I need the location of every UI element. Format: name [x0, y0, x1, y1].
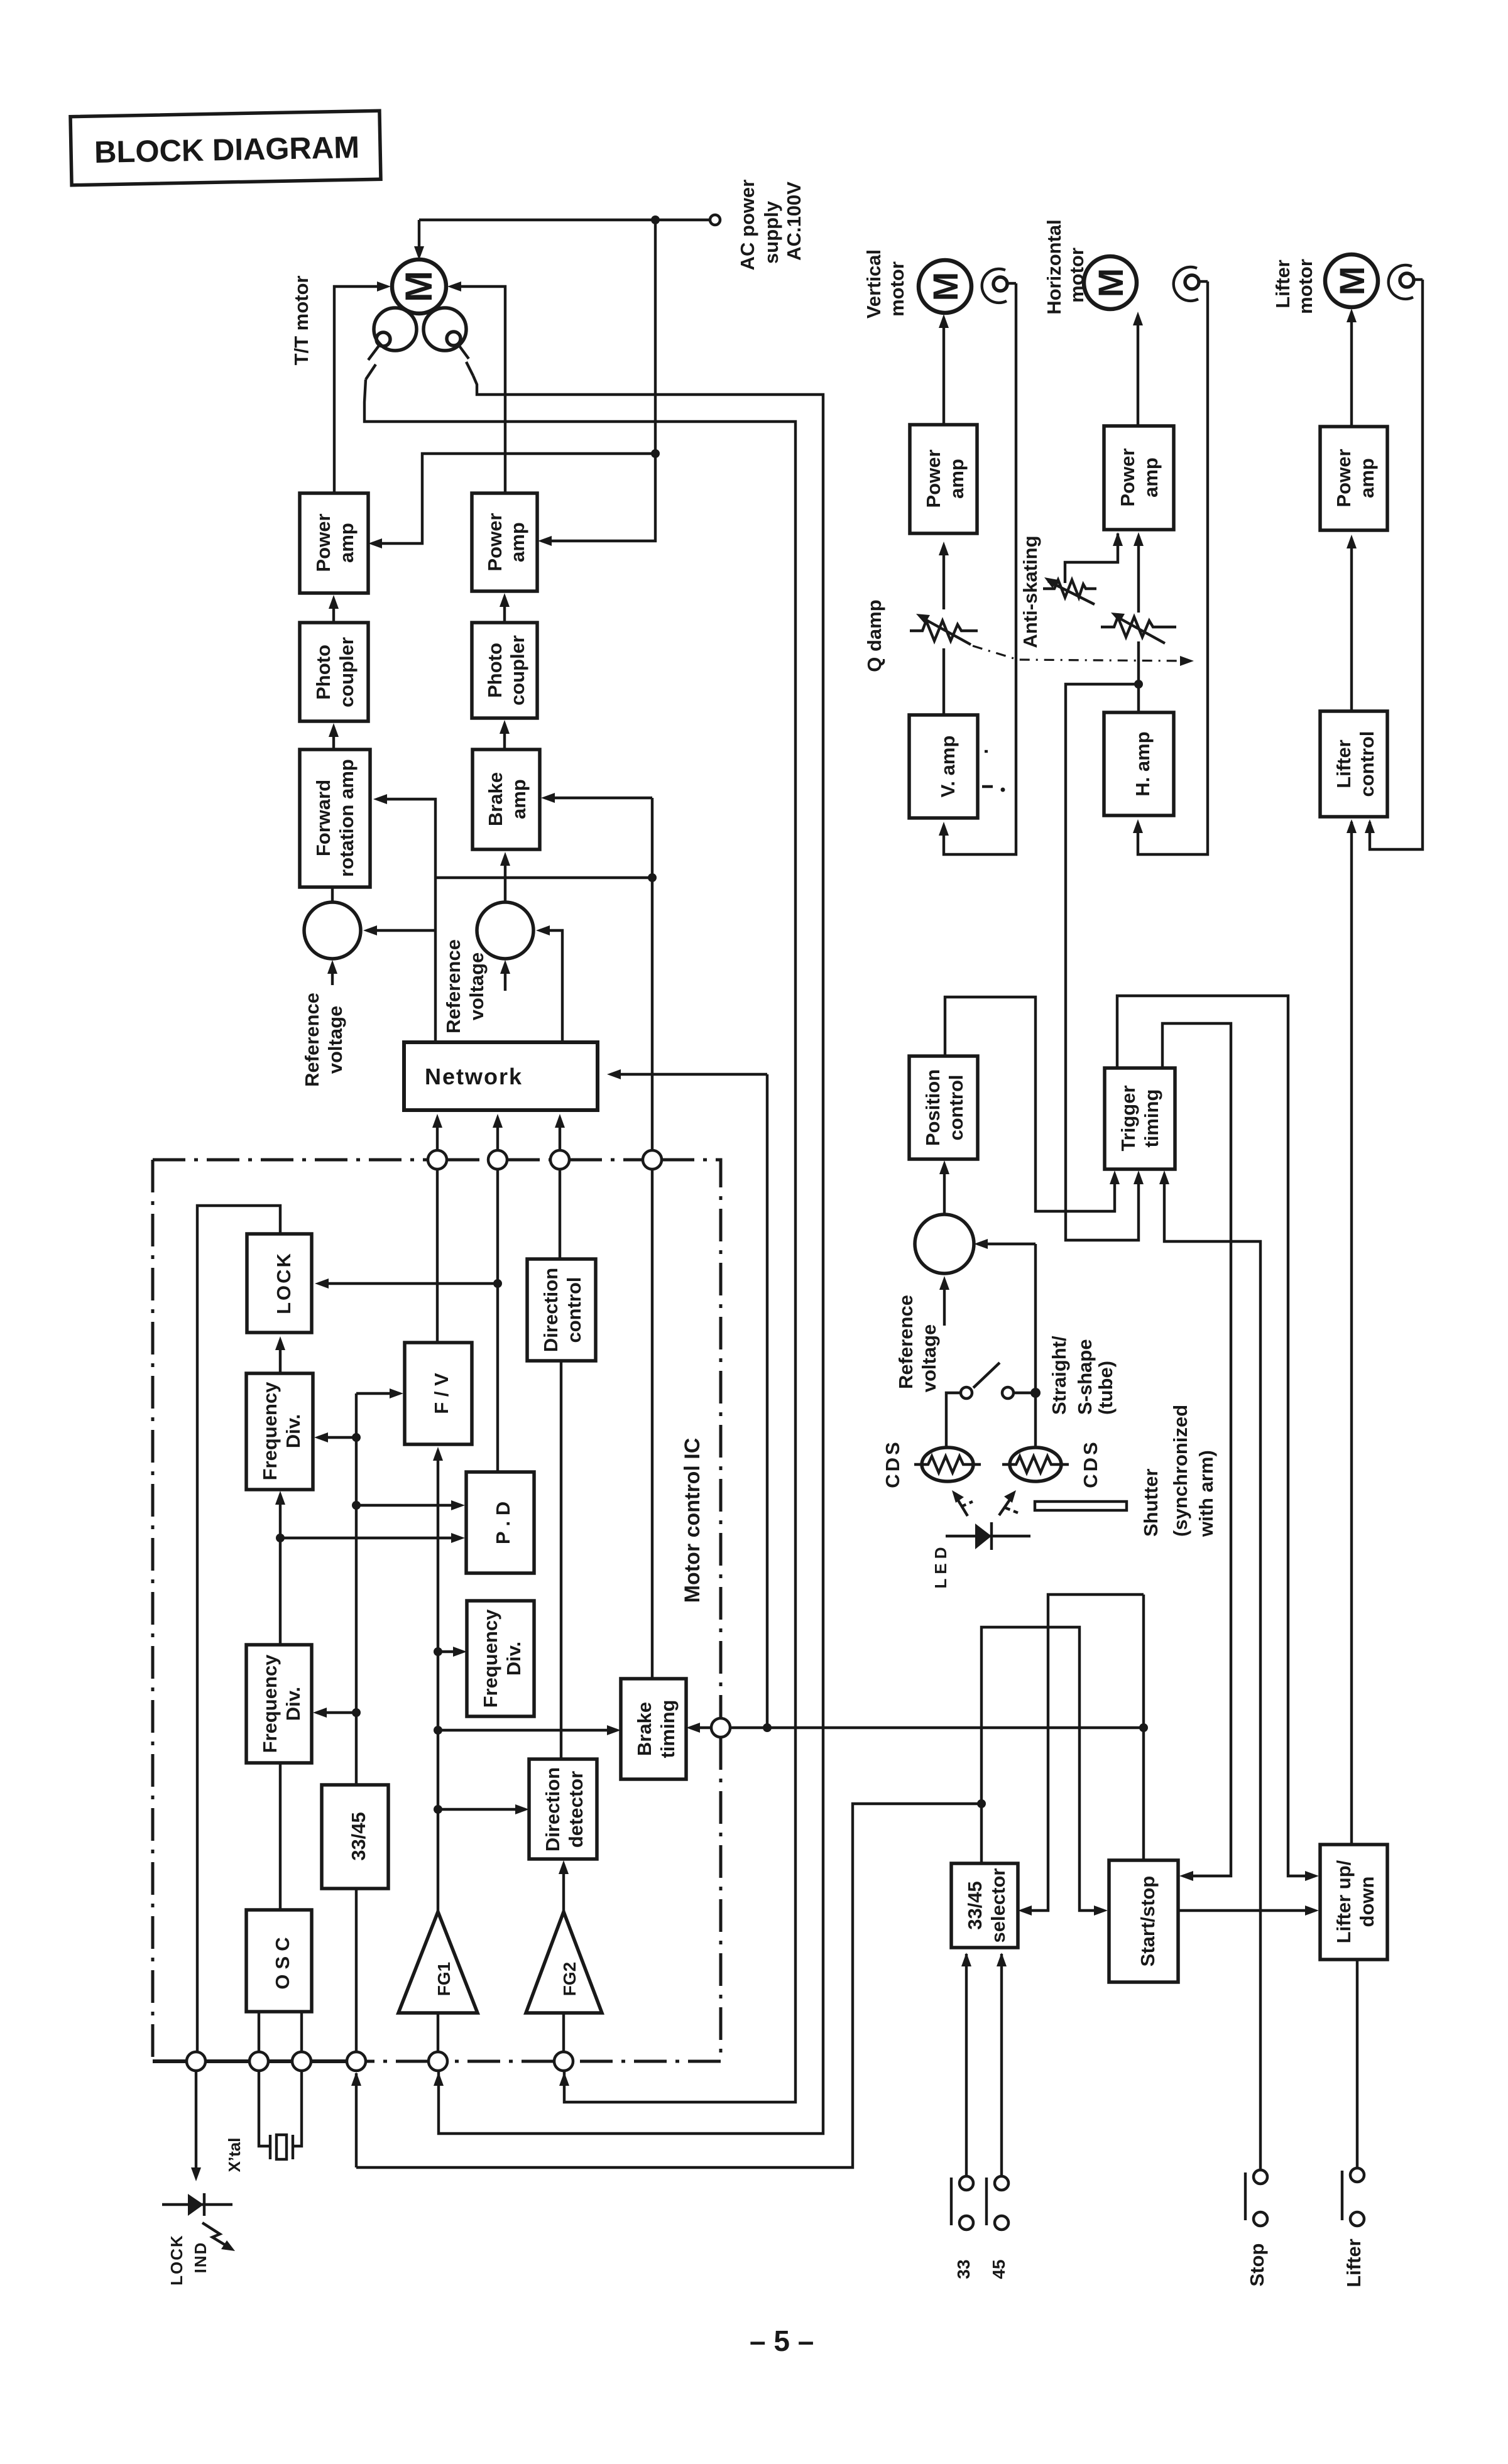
CDS photoresistor 2: [1002, 1447, 1069, 1481]
svg-text:BLOCK DIAGRAM: BLOCK DIAGRAM: [94, 131, 360, 170]
svg-text:control: control: [1356, 731, 1378, 797]
svg-text:amp: amp: [336, 523, 358, 563]
33/45 selector box: [951, 1863, 1018, 1948]
FG2 amplifier triangle: [526, 1912, 602, 2013]
wire FG2 to Direction detector bottom: [562, 1864, 565, 1912]
wire into F/V left: [356, 1392, 400, 1395]
wire Network right input: [611, 1073, 767, 1076]
svg-text:LOCK: LOCK: [273, 1251, 295, 1314]
svg-text:Trigger: Trigger: [1117, 1085, 1139, 1151]
svg-text:LOCK: LOCK: [167, 2234, 186, 2286]
motor winding right circle: [423, 308, 466, 351]
wire AC tap to Power amp 1: [372, 454, 655, 543]
arrowhead into IC pin FG2: [559, 2072, 569, 2086]
brush lead left diagonals: [368, 345, 380, 360]
45 switch: [986, 1953, 1008, 2279]
Network box: [404, 1042, 598, 1110]
svg-text:F / V: F / V: [430, 1373, 452, 1414]
arrowhead into F/V bottom: [433, 1447, 443, 1461]
svg-text:33/45: 33/45: [964, 1881, 986, 1930]
wire Network input vertical: [766, 1074, 768, 1728]
wire branch up over to Start/stop left: [981, 1627, 1104, 1911]
IC boundary circle pin brake timing: [711, 1718, 730, 1737]
arrowhead into M left: [377, 281, 391, 292]
Lifter control box: [1320, 711, 1387, 817]
svg-text:supply: supply: [760, 200, 782, 264]
wire osc tap into P.D left input 2: [280, 1537, 461, 1539]
wire Network bottom input 3: [559, 1118, 561, 1150]
arrowhead into Start/stop left: [1094, 1905, 1108, 1916]
svg-text:Lifter up/: Lifter up/: [1333, 1860, 1355, 1943]
wire fg1 to Brake timing left: [438, 1729, 617, 1731]
wire Network bottom input 1: [436, 1118, 439, 1150]
Photo coupler box 2: [472, 623, 537, 718]
svg-text:Anti-skating: Anti-skating: [1019, 535, 1041, 648]
wire fg1 to Frequency Div 2 left: [438, 1650, 463, 1653]
wire pin2 to P.D top: [496, 1169, 499, 1472]
IC boundary circle pin lock ind: [187, 2052, 205, 2071]
svg-text:amp: amp: [1356, 458, 1378, 498]
wire start/stop to lifter up/down: [1178, 1909, 1315, 1912]
svg-text:Reference: Reference: [895, 1295, 917, 1389]
wire summing circle 2 to Brake amp: [504, 856, 506, 902]
wire lock ind down arrow: [195, 2071, 197, 2175]
svg-text:amp: amp: [508, 779, 530, 819]
H amp box: [1104, 712, 1174, 815]
wire Direction control to Direction detector: [560, 1361, 562, 1759]
wire Photo coupler 1 to Power amp 1: [332, 599, 335, 623]
wire net A branch to brake net: [435, 876, 652, 879]
Power amp box 2: [472, 493, 537, 591]
OSC box: [246, 1910, 312, 2012]
reference voltage stub into position circle: [943, 1280, 946, 1326]
wire Power amp 2 output to M right: [451, 286, 505, 493]
wire pin4 to Brake timing top: [651, 1169, 653, 1679]
brush circle left: [376, 332, 390, 346]
svg-text:motor: motor: [1294, 259, 1316, 314]
svg-text:CDS: CDS: [1079, 1439, 1101, 1488]
arrowhead into Photo coupler 1 bottom: [329, 723, 339, 737]
svg-text:45: 45: [989, 2259, 1008, 2279]
svg-text:– 5 –: – 5 –: [750, 2325, 814, 2357]
svg-text:Photo: Photo: [484, 643, 506, 698]
arrowhead into Frequency Div 1 bottom: [275, 1491, 285, 1505]
wire lifter power amp to motor: [1350, 312, 1353, 427]
wire 33/45 reference chain vertical: [355, 1393, 358, 1785]
node dot chain 2396: [352, 1501, 361, 1510]
svg-text:Brake: Brake: [633, 1702, 655, 1756]
FG1 amplifier triangle: [398, 1912, 478, 2013]
arrowhead into Power amp 1 right: [368, 538, 382, 548]
svg-text:Horizontal: Horizontal: [1043, 219, 1065, 315]
wire lifter control to power amp: [1350, 538, 1353, 711]
wire H feedback from motor curl: [1138, 281, 1208, 854]
svg-text:Reference: Reference: [301, 993, 323, 1087]
svg-text:Motor control IC: Motor control IC: [680, 1438, 704, 1603]
svg-text:Power: Power: [1333, 449, 1355, 507]
svg-text:motor: motor: [1066, 248, 1088, 303]
wire Network to circle 2: [540, 930, 562, 1043]
svg-text:AC.100V: AC.100V: [783, 182, 805, 261]
arrowhead into F/V left: [390, 1388, 403, 1398]
wire 33/45 pin to selector loop: [355, 2073, 358, 2167]
svg-text:Lifter: Lifter: [1343, 2238, 1365, 2287]
vertical motor M circle: [919, 260, 971, 313]
arrowhead into Power amp 2 right: [538, 536, 552, 546]
wire LOCK right input from pin2 net: [319, 1282, 498, 1285]
svg-text:M: M: [1332, 266, 1372, 296]
wire position circle to position control: [943, 1164, 946, 1214]
wire cds net vertical: [1034, 1244, 1037, 1448]
svg-text:Position: Position: [922, 1069, 944, 1146]
arrowhead into Power amp 2 bottom: [500, 593, 510, 607]
svg-text:amp: amp: [1140, 457, 1162, 498]
lifter motor pickup curl: [1389, 265, 1413, 299]
node dot cds switch: [1030, 1388, 1041, 1398]
arrowhead into Photo coupler 2 bottom: [500, 720, 510, 734]
svg-text:amp: amp: [506, 522, 528, 562]
svg-text:with arm): with arm): [1195, 1450, 1217, 1537]
wire trigger output 1 to lifter up/down: [1117, 996, 1315, 1876]
LOCK box: [247, 1234, 312, 1333]
F/V box: [405, 1343, 472, 1444]
wire F/V top to pin1: [436, 1169, 439, 1343]
summing circle 1: [304, 902, 361, 959]
brush lead right diagonals: [458, 344, 469, 359]
wire V chain up into power amp: [942, 545, 945, 609]
wire into Frequency Div 3 right: [317, 1711, 356, 1714]
Lifter Power amp box: [1320, 427, 1387, 530]
svg-text:33/45: 33/45: [347, 1812, 369, 1861]
Stop switch: [1245, 2170, 1268, 2286]
svg-text:Forward: Forward: [312, 780, 334, 856]
svg-text:(synchronized: (synchronized: [1169, 1405, 1191, 1537]
svg-text:Div.: Div.: [503, 1642, 525, 1676]
svg-text:CDS: CDS: [882, 1439, 904, 1488]
svg-text:LED: LED: [931, 1543, 950, 1589]
svg-text:(tube): (tube): [1095, 1361, 1117, 1415]
wire V resistor to V amp: [942, 648, 945, 715]
reference voltage stub into circle 1: [331, 964, 334, 985]
node dot chain 2726: [352, 1708, 361, 1717]
vertical motor pickup curl: [982, 269, 1007, 303]
node dot brake net: [648, 873, 657, 882]
wire Forward rotation amp to Photo coupler 1: [332, 727, 335, 750]
wire start/stop top: [1142, 1595, 1145, 1860]
Start/stop box: [1109, 1860, 1178, 1982]
LED lock indicator diode: [162, 2193, 235, 2251]
Brake amp box: [473, 750, 540, 849]
Motor control IC boundary dash-dot: [153, 1160, 721, 2061]
select switch straight/s-shape: [946, 1363, 1035, 1448]
svg-text:Frequency: Frequency: [259, 1654, 281, 1753]
svg-text:Direction: Direction: [540, 1268, 562, 1352]
wire FG2 base to pin: [562, 2013, 565, 2052]
wire pin3 to Direction control top: [559, 1169, 561, 1259]
lifter motor M circle: [1325, 254, 1378, 307]
svg-text:H. amp: H. amp: [1132, 731, 1154, 796]
wire AC vertical down to Power amp 2: [542, 220, 655, 541]
wire V power amp to V motor: [942, 318, 945, 425]
svg-text:V. amp: V. amp: [937, 736, 959, 798]
anti-skating resistor and feed: [1043, 532, 1123, 604]
svg-text:AC power: AC power: [736, 180, 758, 271]
svg-text:voltage: voltage: [466, 952, 488, 1021]
wire AC top into M: [418, 220, 420, 256]
Frequency Div box 2: [467, 1601, 534, 1716]
svg-text:Power: Power: [484, 513, 506, 571]
node dot fg1 freq div2: [434, 1647, 442, 1656]
svg-text:Lifter: Lifter: [1272, 259, 1294, 308]
node dot start/stop tap: [1139, 1723, 1148, 1732]
svg-text:Frequency: Frequency: [479, 1609, 501, 1708]
H variable resistor: [1101, 613, 1176, 643]
33/45 box: [322, 1785, 388, 1889]
wire net A into circle 1: [367, 929, 435, 932]
node dot AC tap: [651, 449, 660, 458]
svg-text:control: control: [563, 1277, 585, 1343]
svg-text:Frequency: Frequency: [259, 1382, 281, 1481]
LED with light arrows: [946, 1490, 1030, 1550]
arrowhead into Power amp 1 bottom: [329, 595, 339, 609]
wire Brake amp to Photo coupler 2: [503, 724, 506, 750]
svg-text:selector: selector: [987, 1868, 1009, 1943]
svg-text:Start/stop: Start/stop: [1137, 1876, 1159, 1967]
Power amp box 1: [300, 493, 368, 593]
svg-text:Power: Power: [922, 449, 944, 508]
node dot chain 2288: [352, 1433, 361, 1442]
node dot fg1 direction detector: [434, 1805, 442, 1814]
svg-text:voltage: voltage: [918, 1324, 940, 1393]
Brake timing box: [621, 1679, 686, 1779]
wire lifter up/down to lifter control: [1350, 822, 1353, 1845]
H Power amp box: [1104, 426, 1174, 530]
wire FG1 base to pin: [437, 2013, 439, 2052]
arrowhead into Forward rotation amp right: [373, 794, 387, 804]
arrowhead into LOCK right: [315, 1278, 329, 1289]
V Power amp box: [910, 425, 977, 533]
IC boundary circle pin fg1: [429, 2052, 447, 2071]
wire H amp tap to trigger input 2: [1066, 684, 1139, 1240]
wire fg1 to Direction detector left: [438, 1808, 525, 1811]
wire H power amp to H motor: [1137, 315, 1139, 426]
summing circle 2: [477, 902, 533, 959]
wire Photo coupler 2 to Power amp 2: [503, 597, 506, 623]
wire V feedback from motor curl: [944, 283, 1016, 854]
svg-text:timing: timing: [657, 1700, 679, 1758]
wire selector right input: [1022, 1595, 1144, 1911]
wire into P.D left input 1: [356, 1504, 461, 1507]
svg-text:Div.: Div.: [282, 1414, 304, 1449]
wire Brake timing right input from boundary pin: [690, 1726, 711, 1729]
CDS photoresistor 1: [914, 1447, 981, 1481]
svg-text:P . D: P . D: [492, 1502, 514, 1544]
wire net A Network top to Forward amp input: [377, 799, 435, 1043]
arrowhead into circle 1 right: [363, 925, 377, 935]
arrowhead into IC pin FG1: [434, 2072, 444, 2086]
node dot AC branch: [651, 215, 660, 224]
svg-text:M: M: [926, 272, 965, 302]
Lifter up/down box: [1320, 1845, 1387, 1960]
arrowhead into Brake amp bottom: [500, 852, 510, 866]
IC boundary circle pin fg2: [554, 2052, 573, 2071]
AC terminal circle: [710, 215, 720, 225]
svg-text:Photo: Photo: [312, 645, 334, 700]
33 switch: [951, 1953, 973, 2279]
svg-text:amp: amp: [946, 459, 968, 499]
arrowhead into Brake amp right: [541, 793, 555, 803]
wire Network bottom input 2: [496, 1118, 499, 1150]
svg-text:Shutter: Shutter: [1140, 1469, 1162, 1537]
Frequency Div box 1: [246, 1373, 313, 1490]
crystal X'tal: [225, 2071, 302, 2172]
wire Power amp 1 output to M left: [334, 286, 387, 493]
wire OSC leg 1: [258, 2012, 260, 2052]
wire cds net into position circle: [978, 1243, 1035, 1245]
svg-text:Vertical: Vertical: [863, 249, 885, 319]
node dot network tap: [763, 1723, 772, 1732]
wire stop line to trigger input 3: [1164, 1174, 1260, 2170]
reference voltage stub into circle 2: [504, 964, 506, 991]
wire M top to AC terminal: [419, 219, 711, 221]
V amp box: [909, 715, 978, 818]
IC boundary circle pin 33/45: [347, 2052, 366, 2071]
svg-text:Lifter: Lifter: [1333, 739, 1355, 788]
svg-text:M: M: [1091, 268, 1130, 298]
wire H chain up into power amp: [1137, 536, 1140, 613]
svg-text:coupler: coupler: [336, 637, 358, 707]
svg-text:timing: timing: [1140, 1089, 1162, 1148]
svg-text:FG1: FG1: [434, 1962, 454, 1996]
svg-text:Div.: Div.: [282, 1687, 304, 1721]
wire position control to trigger input 1: [945, 997, 1115, 1211]
wire summing circle 1 to Forward rotation amp: [331, 887, 334, 902]
svg-text:Network: Network: [425, 1064, 523, 1089]
svg-text:motor: motor: [886, 261, 908, 317]
svg-text:Straight/: Straight/: [1048, 1336, 1070, 1415]
IC boundary circle pin 2: [488, 1150, 507, 1169]
horizontal motor M circle: [1084, 256, 1137, 309]
horizontal motor pickup curl: [1174, 267, 1198, 301]
svg-text:X’tal: X’tal: [225, 2138, 244, 2172]
svg-text:T/T motor: T/T motor: [290, 276, 312, 366]
node dot fg1 brake timing: [434, 1726, 442, 1735]
svg-text:Power: Power: [1117, 448, 1139, 506]
Direction control box: [527, 1259, 596, 1361]
wire into Frequency Div 1 right: [318, 1436, 356, 1439]
IC boundary circle pin 4: [643, 1150, 662, 1169]
wire lifter feedback from curl: [1370, 280, 1423, 849]
IC boundary circle pin xtal 2: [292, 2052, 311, 2071]
wire OSC leg 2: [300, 2012, 303, 2052]
T/T motor M circle: [392, 259, 446, 313]
wire 33/45 box to pin: [355, 1889, 358, 2052]
wire FG1 output vertical: [437, 1451, 439, 1912]
svg-text:33: 33: [954, 2259, 973, 2279]
Forward rotation amp box: [300, 750, 370, 887]
wire brake timing to start/stop and network: [730, 1726, 1144, 1729]
wire left winding to FG2 loop: [364, 379, 795, 2102]
Position control box: [909, 1056, 978, 1159]
brush circle right: [447, 332, 461, 346]
svg-text:OSC: OSC: [271, 1932, 293, 1989]
arrowhead into Network right: [607, 1069, 621, 1079]
svg-text:FG2: FG2: [560, 1962, 579, 1996]
wire Frequency Div 1 to LOCK: [279, 1340, 281, 1373]
svg-text:voltage: voltage: [324, 1006, 346, 1074]
wire H resistor to dot to H amp: [1137, 641, 1140, 712]
svg-text:S-shape: S-shape: [1074, 1339, 1096, 1415]
arrowhead into LOCK bottom: [275, 1336, 285, 1350]
Q damp variable resistor: [910, 614, 978, 645]
P.D box: [466, 1472, 534, 1573]
Direction detector box: [529, 1759, 597, 1859]
wire brake net vertical: [651, 798, 653, 1150]
arrowhead into M top: [414, 246, 424, 260]
wire LOCK top to lock ind line: [197, 1206, 280, 2052]
Frequency Div box 3: [246, 1645, 312, 1763]
svg-text:coupler: coupler: [506, 635, 528, 706]
wire branch down to 33/45 selector top: [980, 1804, 983, 1863]
Photo coupler box 1: [300, 623, 368, 721]
node dot selector branch: [977, 1799, 986, 1808]
arrowhead into M right: [447, 281, 461, 292]
title box BLOCK DIAGRAM: [70, 111, 381, 185]
Lifter switch: [1342, 1960, 1365, 2287]
svg-text:detector: detector: [565, 1771, 587, 1848]
Trigger timing box: [1105, 1068, 1175, 1169]
svg-text:Reference: Reference: [442, 939, 464, 1033]
svg-text:Brake: Brake: [484, 772, 506, 826]
svg-text:rotation amp: rotation amp: [336, 759, 358, 877]
wire trigger output 2 to start/stop: [1162, 1023, 1231, 1876]
arrowhead into circle 2 right: [536, 925, 550, 935]
gang dash-dot line: [973, 646, 1185, 661]
svg-text:control: control: [945, 1074, 967, 1140]
svg-text:IND: IND: [191, 2242, 210, 2274]
svg-text:Q damp: Q damp: [863, 599, 885, 672]
node dot osc tap: [276, 1534, 285, 1542]
IC boundary circle pin xtal 1: [249, 2052, 268, 2071]
svg-text:M: M: [398, 271, 440, 302]
wire right winding to FG1 loop: [439, 376, 823, 2134]
IC boundary circle pin 3: [550, 1150, 569, 1169]
svg-text:Stop: Stop: [1246, 2243, 1268, 2287]
position summing circle: [915, 1214, 974, 1273]
stray dash marks near V.amp: [982, 785, 993, 788]
shutter blade: [1035, 1502, 1127, 1510]
svg-text:down: down: [1356, 1877, 1378, 1927]
wire OSC to Frequency Div 1: [279, 1495, 281, 1645]
node dot H amp tap: [1134, 680, 1143, 689]
IC boundary circle pin 1: [428, 1150, 447, 1169]
wire brake net into Brake amp right: [545, 797, 652, 799]
svg-text:Power: Power: [312, 513, 334, 572]
motor winding left circle: [374, 308, 417, 351]
svg-text:Direction: Direction: [542, 1767, 564, 1851]
node dot pin2 lock tap: [493, 1279, 502, 1288]
